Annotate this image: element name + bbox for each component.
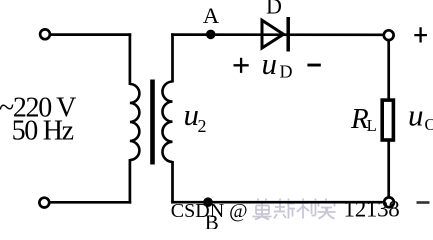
svg-text:L: L (367, 116, 377, 135)
inductor primary winding (130, 84, 140, 160)
label + (uD) (234, 58, 249, 73)
svg-text:50 Hz: 50 Hz (12, 116, 74, 147)
wire secondary top horizontal (171, 33, 382, 36)
watermark CJK glyph 1 (253, 199, 272, 220)
wire primary top (48, 33, 131, 36)
svg-text:O: O (425, 115, 433, 134)
transformer core (150, 80, 155, 165)
wire primary left vertical bottom (129, 159, 132, 204)
node B (203, 197, 213, 207)
node A (206, 30, 216, 40)
wire secondary bottom vertical (171, 161, 174, 204)
svg-text:D: D (280, 62, 293, 82)
watermark CJK glyph 2 (274, 199, 295, 219)
svg-text:CSDN @: CSDN @ (171, 200, 248, 222)
svg-text:u: u (262, 46, 278, 81)
terminal bottom-left (39, 198, 49, 208)
wire bottom secondary (171, 201, 383, 204)
label - output (417, 201, 430, 204)
wire right vertical (387, 41, 390, 197)
terminal top-right (384, 30, 394, 40)
wire primary bottom (48, 201, 131, 204)
watermark CJK glyph 4 (318, 199, 336, 219)
svg-text:2: 2 (198, 116, 207, 136)
wire secondary top vertical (171, 33, 174, 82)
svg-text:D: D (266, 0, 282, 19)
resistor RL (382, 100, 393, 140)
label + output (414, 27, 427, 42)
svg-text:12138: 12138 (344, 197, 400, 222)
watermark CSDN (171, 197, 400, 223)
diode D triangle (262, 20, 284, 48)
wire primary left vertical top (129, 33, 132, 85)
svg-text:u: u (408, 98, 424, 133)
terminal bottom-right (384, 197, 394, 207)
label - (uD) (307, 64, 320, 67)
diode D cathode bar (286, 17, 290, 52)
terminal top-left (40, 29, 50, 39)
watermark CJK glyph 3 (297, 199, 316, 219)
svg-text:A: A (203, 3, 220, 28)
inductor secondary winding (162, 82, 172, 162)
